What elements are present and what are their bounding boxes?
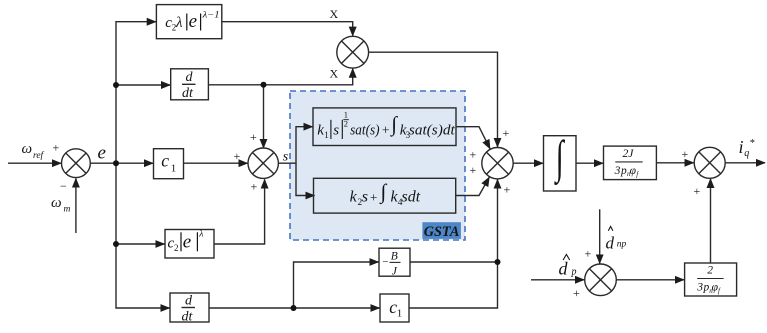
label omega_ref	[22, 141, 45, 161]
block B8 integrator	[544, 136, 577, 191]
wire d_p input	[531, 279, 584, 281]
svg-text:1: 1	[171, 163, 177, 175]
summing junction SUM4	[694, 147, 725, 178]
wire B1 out to multiplier top	[222, 22, 353, 36]
block B10 -B/J	[379, 248, 410, 276]
node after top d/dt	[261, 82, 267, 88]
block B5 d/dt bottom	[170, 293, 209, 322]
GSTA region dashed box	[290, 91, 465, 240]
svg-text:+: +	[470, 148, 477, 162]
svg-text:+: +	[504, 183, 511, 197]
text B5: d/dt	[182, 294, 194, 325]
svg-text:e: e	[98, 142, 106, 163]
wire d_np input	[599, 209, 601, 263]
svg-text:d: d	[606, 234, 615, 253]
svg-text:X: X	[330, 67, 339, 81]
wire to c2|e|^lambda	[116, 243, 165, 245]
svg-text:c: c	[161, 150, 169, 170]
svg-text:λ: λ	[175, 15, 183, 31]
svg-text:sat(s)dt: sat(s)dt	[409, 122, 456, 138]
svg-text:k: k	[350, 188, 358, 205]
wire omega_m input	[75, 178, 77, 233]
block B3 c1	[154, 149, 184, 179]
GSTA label box	[422, 222, 461, 239]
summing junction SUM5	[585, 264, 617, 296]
svg-text:i: i	[739, 137, 744, 157]
svg-text:2: 2	[174, 243, 179, 253]
wire main vertical branch top	[116, 22, 156, 164]
svg-text:3: 3	[614, 165, 621, 177]
wire 2/3pf block up to sum4 bottom	[710, 179, 712, 263]
svg-text:+: +	[682, 147, 689, 161]
text B12: 2 / 3 pn phi f	[696, 264, 721, 295]
wire s branch to k2	[296, 163, 315, 195]
wire -B/J out	[410, 261, 498, 263]
node feedback join	[495, 259, 501, 265]
svg-text:p: p	[571, 267, 577, 278]
text B7: k2 s + Int k4 s dt	[350, 180, 421, 208]
svg-text:J: J	[392, 265, 398, 277]
svg-text:2: 2	[707, 264, 713, 276]
svg-text:2J: 2J	[623, 148, 635, 160]
svg-text:+: +	[503, 126, 510, 140]
svg-text:1: 1	[397, 308, 403, 320]
wire s branch to k1	[278, 127, 312, 164]
svg-text:s: s	[283, 149, 289, 164]
fraction bar B/J	[390, 261, 401, 263]
svg-text:np: np	[617, 239, 627, 249]
svg-text:1: 1	[324, 130, 329, 140]
wire e: sum1 to c1	[90, 162, 153, 164]
text B1: c2 lambda |e|^(lambda-1)	[165, 9, 219, 32]
svg-text:ω: ω	[22, 141, 33, 157]
svg-text:sdt: sdt	[402, 188, 421, 205]
wire main vertical branch bottom	[116, 163, 170, 308]
block B11 C1	[380, 294, 409, 322]
label iq*	[739, 137, 756, 159]
wire omega_ref input	[8, 162, 61, 164]
block B9 2J/3pnphif	[604, 146, 657, 180]
text B10: -B/J	[382, 250, 398, 277]
block B4 c2|e|^lambda	[165, 230, 214, 259]
wire sum3 to integrator	[513, 162, 543, 164]
svg-text:−: −	[382, 256, 388, 268]
svg-text:dt: dt	[182, 86, 194, 101]
block B1 c2*lambda*|e|^(lambda-1)	[156, 5, 221, 39]
text B9: 2J / 3 pn phi f	[614, 148, 640, 179]
svg-text:λ: λ	[198, 229, 203, 239]
summing junction SUM1	[62, 149, 91, 178]
svg-text:B: B	[391, 250, 398, 262]
wire C1 out and feedback vertical to sum3 bottom	[409, 179, 498, 308]
summing junction SUM2	[248, 148, 278, 178]
svg-text:s: s	[362, 188, 368, 205]
node d/dt branch	[113, 82, 119, 88]
svg-text:λ−1: λ−1	[201, 9, 219, 19]
multiplier MULT	[337, 36, 369, 68]
svg-text:+: +	[573, 286, 580, 300]
wire B2 out to multiplier bottom	[208, 69, 352, 85]
svg-text:GSTA: GSTA	[424, 224, 459, 240]
svg-text:+: +	[382, 122, 390, 137]
svg-text:+: +	[694, 184, 701, 198]
wire B5 out to C1 block	[209, 307, 380, 309]
summing junction SUM3	[482, 148, 513, 179]
svg-text:−: −	[60, 179, 67, 193]
label d_np hat	[606, 234, 627, 253]
svg-text:e: e	[183, 232, 191, 253]
svg-text:∫: ∫	[389, 112, 398, 137]
svg-text:m: m	[64, 205, 71, 215]
svg-text:s: s	[333, 122, 339, 138]
svg-text:*: *	[749, 138, 755, 149]
block B12 2/3pnphif	[685, 263, 737, 296]
svg-text:X: X	[330, 7, 339, 21]
wire 2J block to sum4	[656, 162, 693, 164]
wire sum5 to 2/3pf block	[617, 279, 685, 281]
svg-text:d: d	[186, 70, 194, 85]
wire k1 out diagonal to sum3	[456, 127, 490, 149]
wire integrator to 2J block	[576, 162, 603, 164]
svg-text:sat(s): sat(s)	[350, 122, 380, 138]
wire to top d/dt	[116, 84, 170, 86]
svg-text:+: +	[234, 149, 241, 163]
node c2 branch	[113, 241, 119, 247]
svg-text:∫: ∫	[379, 180, 388, 205]
svg-text:q: q	[744, 148, 749, 159]
svg-text:+: +	[470, 163, 477, 177]
fraction bar d/dt top	[182, 83, 196, 85]
svg-text:d: d	[185, 294, 193, 309]
block B7 k2 term	[314, 178, 456, 213]
wire branch down to sum2 top	[263, 85, 265, 148]
svg-text:+: +	[250, 130, 257, 144]
fraction bar d/dt bottom	[182, 307, 196, 309]
svg-text:+: +	[53, 141, 60, 155]
text B6: k1|s|^(1/2)sat(s)+Int k3 sat(s)dt	[317, 110, 455, 140]
label d_p hat	[559, 259, 577, 279]
text B3: c1	[161, 150, 176, 174]
fraction bar 2J/3pnphif	[615, 161, 642, 163]
node e branch	[113, 160, 119, 166]
svg-text:k: k	[317, 122, 324, 138]
wire c1 out to sum2	[184, 162, 248, 164]
text B2: d/dt	[182, 70, 194, 101]
svg-text:p: p	[620, 165, 627, 177]
label omega_m	[51, 195, 71, 215]
svg-text:ref: ref	[33, 150, 45, 161]
svg-text:ω: ω	[51, 195, 62, 211]
wire c2|e|^l out up to sum2 bottom	[214, 179, 265, 244]
svg-text:dt: dt	[182, 310, 194, 325]
fraction bar 2/3pnphif	[697, 278, 723, 280]
svg-text:e: e	[189, 11, 197, 32]
text B11: C1	[389, 297, 402, 320]
svg-text:+: +	[251, 179, 258, 193]
wire sum4 output iq*	[725, 162, 765, 164]
wire k2 out diagonal to sum3	[456, 177, 489, 195]
svg-text:+: +	[585, 247, 592, 261]
block B2 d/dt top	[171, 69, 209, 100]
svg-text:+: +	[370, 189, 377, 204]
block B6 k1 term	[313, 108, 456, 146]
svg-text:d: d	[559, 259, 569, 279]
text B4: c2|e|^lambda	[168, 229, 204, 253]
wire branch up to -B/J	[294, 262, 379, 308]
node after bottom d/dt	[291, 305, 297, 311]
wire multiplier out to sum3 top	[369, 52, 498, 147]
svg-text:3: 3	[696, 282, 703, 294]
